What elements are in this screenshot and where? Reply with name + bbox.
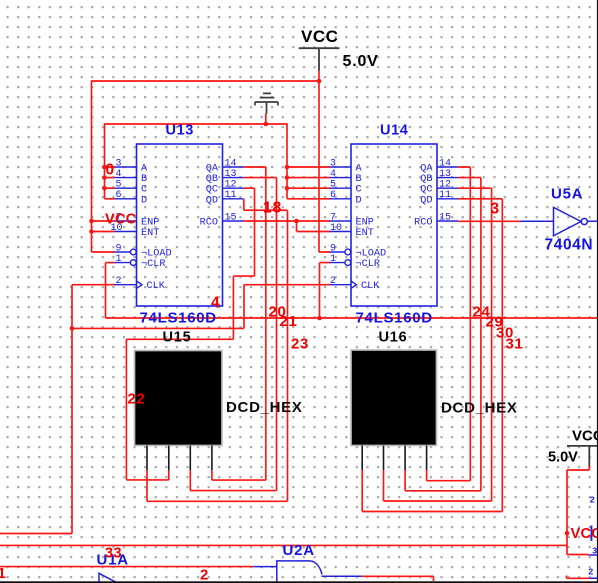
- svg-text:VCC: VCC: [572, 428, 598, 445]
- svg-text:33: 33: [105, 546, 122, 562]
- svg-text:74LS160D: 74LS160D: [356, 310, 433, 327]
- svg-text:¬LOAD: ¬LOAD: [356, 249, 387, 260]
- svg-text:10: 10: [330, 223, 342, 234]
- svg-text:ENT: ENT: [141, 228, 159, 239]
- svg-text:A: A: [141, 164, 148, 175]
- U13 value label 74LS160D: [140, 310, 217, 327]
- svg-text:6: 6: [116, 190, 122, 201]
- U13 pin numbers: [111, 158, 237, 287]
- net number 1 left edge clipped: [0, 565, 6, 582]
- svg-text:3: 3: [330, 158, 336, 169]
- junction clear net at U14 branch: [317, 316, 322, 321]
- net number 33: [105, 546, 122, 562]
- svg-text:3: 3: [592, 547, 597, 557]
- junction U14 input B: [285, 175, 290, 180]
- svg-text:12: 12: [439, 180, 451, 191]
- junction U13 input A: [102, 165, 107, 170]
- svg-text:DCD_HEX: DCD_HEX: [441, 400, 518, 417]
- net number 4: [211, 295, 220, 312]
- svg-text:U13: U13: [166, 123, 194, 139]
- svg-text:23: 23: [291, 336, 309, 353]
- net number 2 bottom: [200, 567, 208, 583]
- wire: U2A output net: [362, 576, 434, 581]
- net number 20: [269, 304, 287, 321]
- svg-text:2: 2: [590, 496, 595, 506]
- net number 24: [473, 304, 491, 321]
- svg-text:QC: QC: [206, 185, 218, 196]
- counter U13 74LS160D body: [137, 144, 223, 306]
- svg-text:13: 13: [439, 169, 451, 180]
- svg-text:QD: QD: [206, 195, 218, 206]
- svg-text:11: 11: [225, 190, 237, 201]
- svg-text:D: D: [356, 195, 362, 206]
- svg-text:B: B: [141, 174, 147, 185]
- svg-text:¬CLR: ¬CLR: [356, 259, 380, 270]
- net number 22: [128, 391, 146, 408]
- U15 pins: [147, 446, 212, 471]
- junction VCC right label tap: [565, 531, 570, 536]
- svg-text:13: 13: [225, 169, 237, 180]
- svg-text:QC: QC: [420, 185, 432, 196]
- svg-text:VCC: VCC: [301, 27, 338, 46]
- svg-text:ENT: ENT: [356, 228, 374, 239]
- net number 18: [263, 200, 282, 217]
- net number 21: [280, 313, 298, 330]
- svg-text:U14: U14: [380, 123, 408, 139]
- net label VCC at U13: [105, 212, 137, 228]
- svg-text:QB: QB: [206, 174, 218, 185]
- net number 30: [496, 325, 514, 342]
- svg-text:U2A: U2A: [283, 542, 315, 559]
- junction U13 input B: [102, 175, 107, 180]
- junction U14 input C: [285, 186, 290, 191]
- svg-text:U15: U15: [163, 330, 192, 346]
- junction U13 ENP: [89, 219, 94, 224]
- svg-text:5: 5: [116, 180, 122, 191]
- svg-text:2: 2: [116, 276, 122, 287]
- svg-text:VCC: VCC: [105, 212, 137, 228]
- wire: net 30 U14 QC to U16 pin2: [384, 188, 492, 501]
- U13 pin stubs: [115, 167, 244, 288]
- U16 value label DCD_HEX: [441, 400, 518, 417]
- svg-text:18: 18: [263, 200, 282, 217]
- svg-text:7: 7: [330, 212, 336, 223]
- U16 pins: [362, 446, 426, 471]
- svg-text:7404N: 7404N: [545, 237, 594, 254]
- U15 value label DCD_HEX: [226, 399, 303, 416]
- svg-text:RCO: RCO: [414, 218, 432, 229]
- svg-text:14: 14: [225, 158, 237, 169]
- U14 reference label: [380, 123, 408, 139]
- wire: net 33 bottom rail to U2A input: [0, 566, 253, 568]
- svg-text:C: C: [356, 185, 362, 196]
- svg-text:21: 21: [280, 313, 298, 330]
- junction at VCC top feed: [317, 79, 322, 84]
- wire: net 3 U14 RCO to U5A input: [458, 220, 521, 222]
- wire: VCC net right side distribution: [0, 466, 589, 555]
- U16 reference label: [379, 330, 408, 346]
- svg-text:3: 3: [491, 201, 500, 218]
- svg-text:ENP: ENP: [356, 218, 374, 229]
- svg-text:D: D: [141, 195, 147, 206]
- U1A reference label: [97, 552, 129, 569]
- svg-text:C: C: [141, 185, 147, 196]
- svg-text:5.0V: 5.0V: [343, 53, 379, 70]
- svg-text:CLK: CLK: [361, 281, 380, 292]
- net number 23: [291, 336, 309, 353]
- power VCC supply symbol top: [299, 27, 379, 71]
- svg-text:4: 4: [330, 169, 336, 180]
- svg-text:1: 1: [330, 254, 336, 265]
- inverter U5A 7404N: [521, 207, 598, 236]
- svg-text:4: 4: [116, 169, 122, 180]
- wire: net 21 U13 QB to U15 pin3: [190, 178, 276, 491]
- U2A reference label: [283, 542, 315, 559]
- right edge gate input stubs: [589, 555, 598, 578]
- svg-text:14: 14: [439, 158, 451, 169]
- svg-text:22: 22: [128, 391, 146, 408]
- U14 pin stubs: [330, 167, 459, 288]
- svg-text:DCD_HEX: DCD_HEX: [226, 399, 303, 416]
- svg-text:¬CLR: ¬CLR: [141, 259, 165, 270]
- svg-text:QD: QD: [420, 195, 432, 206]
- svg-text:1: 1: [116, 254, 122, 265]
- svg-text:2: 2: [588, 568, 593, 578]
- svg-text:5.0V: 5.0V: [548, 450, 578, 466]
- U13 reference label: [166, 123, 194, 139]
- wire: net 0 ground bus to U13/U14 inputs: [104, 114, 330, 199]
- junction clock net branch: [70, 326, 75, 331]
- net number 3: [491, 201, 500, 218]
- svg-text:ENP: ENP: [141, 218, 159, 229]
- power VCC supply symbol right: [548, 428, 598, 467]
- svg-text:11: 11: [439, 190, 451, 201]
- gate U2A partial at bottom: [253, 561, 362, 583]
- svg-text:2: 2: [330, 276, 336, 287]
- svg-text:5: 5: [330, 180, 336, 191]
- ground symbol: [255, 93, 278, 113]
- junction U13 input C: [102, 186, 107, 191]
- U14 value label 74LS160D: [356, 310, 433, 327]
- wire: net 31 U14 QD to U16 pin1: [362, 199, 502, 512]
- svg-text:¬LOAD: ¬LOAD: [141, 249, 172, 260]
- U15 reference label: [163, 330, 192, 346]
- U14 pin numbers: [330, 158, 451, 287]
- svg-text:QB: QB: [420, 174, 432, 185]
- svg-text:6: 6: [330, 190, 336, 201]
- svg-text:12: 12: [225, 180, 237, 191]
- U5A value label 7404N: [545, 237, 594, 254]
- svg-text:15: 15: [439, 212, 451, 223]
- svg-text:4: 4: [211, 295, 220, 312]
- svg-text:15: 15: [225, 212, 237, 223]
- junction at ground stem: [264, 122, 269, 127]
- junction U14 ENP/ENT tap: [294, 219, 299, 224]
- wire: net 20 U13 QA to U15 pin4: [212, 167, 266, 480]
- svg-text:U16: U16: [379, 330, 408, 346]
- wire: net 29 U14 QB to U16 pin3: [405, 178, 481, 491]
- display U15 DCD_HEX body: [135, 351, 223, 446]
- counter U14 74LS160D body: [351, 144, 437, 306]
- svg-text:VCC: VCC: [571, 526, 598, 542]
- svg-text:31: 31: [506, 336, 524, 353]
- wire: net 22 U13 QC to U15 pin2: [126, 188, 254, 480]
- inverter U1A partial at bottom: [99, 573, 118, 583]
- svg-text:0: 0: [106, 162, 115, 179]
- svg-text:U5A: U5A: [551, 186, 583, 203]
- right edge blue pin marks: [588, 496, 597, 578]
- svg-text:74LS160D: 74LS160D: [140, 310, 217, 327]
- svg-text:CLK: CLK: [147, 281, 166, 292]
- junction U13 ENT: [89, 229, 94, 234]
- svg-text:RCO: RCO: [200, 218, 218, 229]
- net number 29: [486, 314, 504, 331]
- svg-text:2: 2: [200, 567, 208, 583]
- wire: VCC net from top supply to U13/U14 enable+load pins: [91, 71, 330, 253]
- svg-text:QA: QA: [206, 164, 219, 175]
- wire: clear net joining U13 ~CLR and U14 ~CLR: [106, 263, 598, 318]
- wire: clock net joining U13 CLK and U14 CLK: [0, 285, 330, 534]
- svg-text:3: 3: [116, 158, 122, 169]
- junction U14 input A: [285, 165, 290, 170]
- wire: net 2 right edge gate stub: [567, 576, 590, 579]
- U13 pin names: [141, 164, 219, 293]
- wire: net 24 U14 QA to U16 pin4: [427, 167, 471, 481]
- wire: net 18 U13 RCO to U14 ENP/ENT: [244, 221, 331, 232]
- svg-text:1: 1: [0, 565, 6, 582]
- svg-text:A: A: [356, 164, 363, 175]
- display U16 DCD_HEX body: [351, 350, 437, 446]
- U5A reference label: [551, 186, 583, 203]
- net number 31: [506, 336, 524, 353]
- svg-text:9: 9: [116, 243, 122, 254]
- net number 0: [106, 162, 115, 179]
- wire: net 23 U13 QD to U15 pin1: [147, 199, 288, 502]
- U14 pin names: [356, 164, 434, 293]
- net label VCC right side: [571, 526, 598, 542]
- svg-text:QA: QA: [420, 164, 433, 175]
- svg-text:9: 9: [330, 243, 336, 254]
- svg-text:B: B: [356, 174, 362, 185]
